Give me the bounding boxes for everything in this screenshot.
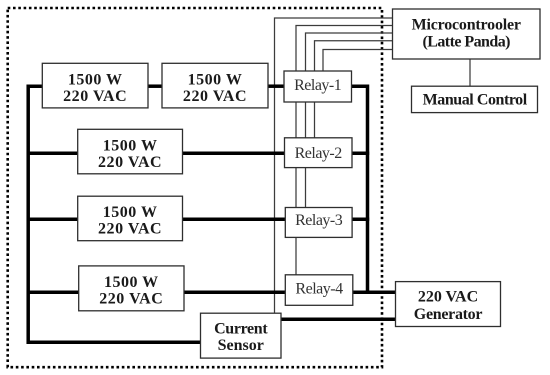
svg-text:220 VAC: 220 VAC xyxy=(183,88,247,105)
load L3 1500 W 220 VAC xyxy=(78,129,183,174)
wire: left supply bus with bottom run to Current Sensor xyxy=(28,86,200,342)
svg-text:Relay-3: Relay-3 xyxy=(295,212,343,229)
wire: row1 load B to Relay-1 xyxy=(268,84,284,88)
wire: row4 Relay-4 to 220 VAC Generator xyxy=(353,290,397,294)
wire: row3 load to Relay-3 xyxy=(183,218,286,222)
wire: row3 bus to load xyxy=(27,218,78,222)
svg-text:1500 W: 1500 W xyxy=(104,274,159,291)
microcontroller U1 (Latte Panda) xyxy=(393,9,541,59)
svg-text:Relay-2: Relay-2 xyxy=(295,145,343,162)
wire: control line Relay-3 to Microcontroller xyxy=(306,33,393,208)
svg-text:220 VAC: 220 VAC xyxy=(98,154,162,171)
dashed enclosure border xyxy=(8,8,382,367)
svg-text:Relay-1: Relay-1 xyxy=(294,77,342,94)
svg-text:220 VAC: 220 VAC xyxy=(98,221,162,238)
current sensor xyxy=(201,313,282,358)
wire: control line Relay-4 to Microcontroller xyxy=(296,26,393,275)
svg-text:Sensor: Sensor xyxy=(218,337,264,354)
manual control box xyxy=(412,86,538,112)
svg-text:1500 W: 1500 W xyxy=(103,204,158,221)
generator G1 220 VAC xyxy=(396,282,501,327)
relay K4 Relay-4 xyxy=(285,275,353,306)
load L5 1500 W 220 VAC xyxy=(79,266,184,311)
svg-text:Relay-4: Relay-4 xyxy=(295,280,343,297)
svg-text:Current: Current xyxy=(214,320,268,337)
wire: control line Relay-2 to Microcontroller xyxy=(315,41,393,138)
load L2 1500 W 220 VAC xyxy=(162,63,268,108)
svg-text:Microcontrooler: Microcontrooler xyxy=(412,17,521,34)
wire: row4 bus to load xyxy=(27,290,79,294)
load L1 1500 W 220 VAC xyxy=(42,63,148,108)
wire: row2 bus to load xyxy=(27,151,78,155)
svg-text:220 VAC: 220 VAC xyxy=(63,88,127,105)
wire: Current Sensor to 220 VAC Generator xyxy=(281,318,397,322)
relay K3 Relay-3 xyxy=(285,208,352,238)
load L4 1500 W 220 VAC xyxy=(78,196,183,241)
wire: control line Relay-1 to Microcontroller xyxy=(323,50,393,72)
svg-text:1500 W: 1500 W xyxy=(103,137,158,154)
wire: row2 load to Relay-2 xyxy=(183,151,285,155)
svg-text:1500 W: 1500 W xyxy=(188,71,243,88)
wire: row3 Relay-3 to right bus xyxy=(352,218,369,222)
wire: control line Current Sensor to Microcontroller xyxy=(275,18,393,313)
svg-text:Manual Control: Manual Control xyxy=(423,91,528,108)
wire: row1 load A to load B xyxy=(148,84,162,88)
svg-text:220 VAC: 220 VAC xyxy=(99,291,163,308)
svg-text:1500 W: 1500 W xyxy=(68,71,123,88)
relay K1 Relay-1 xyxy=(284,71,352,102)
svg-text:220 VAC: 220 VAC xyxy=(418,288,478,305)
wire: Microcontroller to Manual Control xyxy=(469,59,471,86)
svg-text:(Latte Panda): (Latte Panda) xyxy=(422,33,510,50)
wire: row2 Relay-2 to right bus xyxy=(352,151,369,155)
wire: right bus from Relay-1 down to row 4 xyxy=(352,86,368,292)
wire: row4 load to Relay-4 xyxy=(184,290,286,294)
relay K2 Relay-2 xyxy=(285,138,353,168)
svg-text:Generator: Generator xyxy=(414,306,483,323)
